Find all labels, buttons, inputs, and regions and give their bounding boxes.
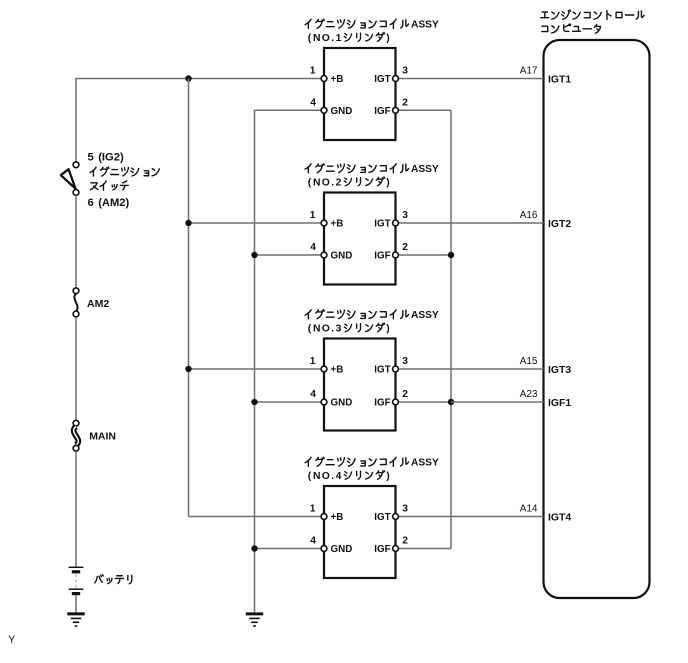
label coil U4 GND (331, 398, 353, 409)
coil U5 pin 3 IGT (393, 514, 399, 520)
svg-text:+B: +B (331, 74, 344, 85)
label coil U2 pin number 3 (402, 66, 408, 77)
ground coil GND bus (246, 614, 263, 626)
label coil U3 pin number 2 (402, 242, 408, 253)
svg-text:4: 4 (310, 98, 316, 109)
ignition switch SW1 terminal 6 (AM2) (73, 190, 79, 196)
junction GND bus at coil U4 (251, 399, 257, 405)
svg-text:IGT1: IGT1 (548, 74, 571, 85)
svg-text:(: ( (308, 33, 312, 44)
label coil U2 subtitle (NO.1シリンダ) (308, 33, 390, 44)
svg-text:IGT4: IGT4 (548, 512, 571, 523)
label coil U3 pin number 4 (310, 242, 316, 253)
svg-text:IGT: IGT (374, 512, 390, 523)
junction GND bus at coil U5 (251, 545, 257, 551)
label coil U5 pin number 1 (310, 504, 316, 515)
label ECU pin IGT1 (548, 74, 571, 85)
svg-text:GND: GND (331, 544, 353, 555)
label coil U3 title イグニツションコイルASSY (305, 164, 439, 175)
wire coil U5 IGF pin 2 to IGF bus (397, 548, 451, 550)
label coil U5 GND (331, 544, 353, 555)
coil U3 pin 2 IGF (393, 252, 399, 258)
svg-text:A14: A14 (520, 504, 538, 515)
label AM2 (87, 298, 109, 310)
svg-text:1: 1 (310, 504, 316, 515)
wire +B bus vertical (node B+) (188, 79, 190, 517)
label pin 5 (IG2) (88, 152, 124, 164)
wire coil U5 GND pin 4 to GND bus (255, 548, 323, 550)
label coil U4 IGT (374, 365, 390, 376)
wire fuse AM2 to fusible link MAIN (75, 317, 77, 421)
label coil U3 IGT (374, 219, 390, 230)
label coil U4 pin number 3 (402, 356, 408, 367)
label ECU pin IGT2 (548, 219, 571, 230)
label coil U3 IGF (374, 251, 390, 262)
svg-text:1: 1 (310, 356, 316, 367)
fuse AM2 terminal top (73, 288, 79, 294)
junction GND bus at coil U3 (251, 252, 257, 258)
fuse AM2 terminal bottom (73, 311, 79, 317)
wire coil U2 IGT pin 3 to ECU (397, 78, 544, 80)
label coil U5 IGT (374, 512, 390, 523)
label coil U3 pin number 3 (402, 210, 408, 221)
svg-text:4: 4 (336, 471, 342, 482)
coil U3 pin 1 +B (321, 220, 327, 226)
label coil U4 +B (331, 365, 344, 376)
label ECU pin IGF1 (548, 398, 571, 409)
svg-text:ASSY: ASSY (411, 310, 439, 321)
junction IGF bus at coil U4 (448, 399, 454, 405)
wire coil U4 IGT pin 3 to ECU (397, 368, 544, 370)
label coil U5 +B (331, 512, 344, 523)
ECU U1 label エンジンコントロール (541, 10, 644, 19)
label coil U2 IGT (374, 74, 390, 85)
wire coil U3 GND pin 4 to GND bus (255, 254, 323, 256)
svg-text:IGT: IGT (374, 365, 390, 376)
label coil U4 title イグニツションコイルASSY (305, 310, 439, 321)
label coil U2 pin number 4 (310, 98, 316, 109)
svg-text:2: 2 (402, 98, 408, 109)
label ECU cavity A17 (520, 66, 538, 77)
svg-text:3: 3 (402, 504, 408, 515)
coil U3 pin 4 GND (321, 252, 327, 258)
ignition switch SW1 イグニツションスイッチ terminal 5 (IG2) (73, 162, 79, 168)
svg-text:N: N (313, 33, 321, 44)
svg-text:2: 2 (402, 389, 408, 400)
label coil U3 subtitle (NO.2シリンダ) (308, 177, 390, 188)
svg-text:1: 1 (336, 33, 342, 44)
ignition switch SW1 lever (61, 169, 76, 188)
label coil U5 pin number 2 (402, 536, 408, 547)
svg-text:ASSY: ASSY (411, 164, 439, 175)
junction +B bus at coil U4 (185, 366, 191, 372)
svg-text:MAIN: MAIN (89, 431, 116, 443)
label イグニツション (ignition) (90, 167, 159, 176)
label coil U4 IGF (374, 398, 390, 409)
junction IGF bus at coil U3 (448, 252, 454, 258)
svg-text:IGT: IGT (374, 219, 390, 230)
svg-text:3: 3 (402, 210, 408, 221)
label ECU cavity A23 (520, 389, 538, 400)
label coil U5 IGF (374, 544, 390, 555)
ignition coil U5 イグニツションコイルASSY NO.4 box (324, 486, 396, 578)
label coil U3 GND (331, 251, 353, 262)
label ECU cavity A14 (520, 504, 538, 515)
wire +B bus to coil U3 pin 1 (189, 222, 323, 224)
wire coil U5 IGT pin 3 to ECU (397, 516, 544, 518)
coil U5 pin 1 +B (321, 514, 327, 520)
svg-text:N: N (313, 471, 321, 482)
wire battery to ground (75, 595, 77, 613)
fusible link MAIN terminal top (73, 420, 79, 426)
svg-text:GND: GND (331, 106, 353, 117)
coil U3 pin 3 IGT (393, 220, 399, 226)
svg-text:1: 1 (310, 66, 316, 77)
coil U2 pin 4 GND (321, 107, 327, 113)
svg-text:5: 5 (88, 152, 94, 164)
fuse AM2 element (74, 294, 77, 311)
svg-text:IGT3: IGT3 (548, 365, 571, 376)
svg-text:AM2: AM2 (87, 298, 109, 310)
junction +B bus at coil U3 (185, 220, 191, 226)
svg-text:O: O (322, 323, 330, 334)
svg-text:+B: +B (331, 219, 344, 230)
svg-text:.: . (331, 471, 334, 482)
svg-text:2: 2 (336, 177, 342, 188)
label coil U2 pin number 1 (310, 66, 316, 77)
svg-text:GND: GND (331, 251, 353, 262)
svg-text:IGF: IGF (374, 106, 390, 117)
label ECU pin IGT3 (548, 365, 571, 376)
coil U2 pin 3 IGT (393, 76, 399, 82)
wire IGF bus to ECU IGF1 (A23) (451, 401, 544, 403)
label coil U2 GND (331, 106, 353, 117)
label coil U4 pin number 2 (402, 389, 408, 400)
svg-text:.: . (331, 33, 334, 44)
label バッテリ (battery) (95, 575, 132, 584)
svg-text:): ) (386, 177, 389, 188)
fusible link MAIN terminal bottom (73, 445, 79, 451)
svg-text:O: O (322, 33, 330, 44)
ignition coil U4 イグニツションコイルASSY NO.3 box (324, 339, 396, 431)
coil U4 pin 3 IGT (393, 366, 399, 372)
label coil U5 title イグニツションコイルASSY (305, 457, 439, 468)
svg-text:ASSY: ASSY (411, 20, 439, 31)
svg-text:(: ( (308, 323, 312, 334)
svg-text:3: 3 (402, 356, 408, 367)
ECU U1 エンジンコントロールコンピュータ body (544, 40, 650, 598)
svg-text:4: 4 (310, 242, 316, 253)
wire coil U3 IGT pin 3 to ECU (397, 222, 544, 224)
svg-text:.: . (331, 177, 334, 188)
label coil U2 pin number 2 (402, 98, 408, 109)
label coil U4 pin number 4 (310, 389, 316, 400)
wire coil U3 IGF pin 2 to IGF bus (397, 254, 451, 256)
svg-text:IGT: IGT (374, 74, 390, 85)
svg-text:A23: A23 (520, 389, 538, 400)
label coil U4 subtitle (NO.3シリンダ) (308, 323, 390, 334)
wire fusible link MAIN to battery (75, 451, 77, 566)
coil U5 pin 2 IGF (393, 546, 399, 552)
label coil U3 pin number 1 (310, 210, 316, 221)
label coil U5 pin number 4 (310, 536, 316, 547)
svg-text:IGT2: IGT2 (548, 219, 571, 230)
label MAIN (89, 431, 116, 443)
svg-text:+B: +B (331, 365, 344, 376)
svg-text:A17: A17 (520, 66, 538, 77)
label coil U5 subtitle (NO.4シリンダ) (308, 471, 390, 482)
ground battery side (67, 614, 84, 626)
svg-text:(: ( (308, 471, 312, 482)
coil U4 pin 2 IGF (393, 399, 399, 405)
svg-text:O: O (322, 177, 330, 188)
label ECU pin IGT4 (548, 512, 571, 523)
label coil U2 +B (331, 74, 344, 85)
wire coil U4 IGF pin 2 to IGF bus (397, 401, 451, 403)
junction +B bus top (185, 75, 191, 81)
svg-text:IGF: IGF (374, 544, 390, 555)
label coil U2 IGF (374, 106, 390, 117)
label ECU cavity A15 (520, 356, 538, 367)
svg-text:N: N (313, 177, 321, 188)
svg-text:O: O (322, 471, 330, 482)
wire +B bus to coil U5 pin 1 (189, 516, 323, 518)
wire IGF bus vertical (node IGF) (450, 110, 452, 548)
wire GND bus vertical (node E1) (254, 110, 256, 612)
svg-text:GND: GND (331, 398, 353, 409)
svg-text:4: 4 (310, 389, 316, 400)
battery BAT バッテリ (69, 567, 84, 593)
ECU U1 label コンピユータ (542, 24, 601, 33)
svg-text:IGF: IGF (374, 398, 390, 409)
svg-text:ASSY: ASSY (411, 458, 439, 469)
wire coil U4 GND pin 4 to GND bus (255, 401, 323, 403)
svg-text:A16: A16 (520, 210, 538, 221)
wire switch to fuse AM2 (75, 195, 77, 288)
svg-text:): ) (386, 33, 389, 44)
coil U5 pin 4 GND (321, 546, 327, 552)
label pin 6 (AM2) (88, 197, 130, 209)
svg-text:.: . (331, 323, 334, 334)
ignition coil U2 イグニツションコイルASSY NO.1 box (324, 48, 396, 140)
svg-text:): ) (386, 323, 389, 334)
svg-text:+B: +B (331, 512, 344, 523)
svg-text:2: 2 (402, 536, 408, 547)
label coil U2 title イグニツションコイルASSY (305, 19, 439, 30)
fusible link MAIN element (74, 427, 79, 446)
coil U4 pin 1 +B (321, 366, 327, 372)
svg-text:4: 4 (310, 536, 316, 547)
coil U2 pin 1 +B (321, 76, 327, 82)
wire left branch vertical (ignition switch feed) (75, 78, 77, 162)
coil U4 pin 4 GND (321, 399, 327, 405)
wire coil U2 GND pin 4 to GND bus (255, 109, 323, 111)
svg-text:): ) (386, 471, 389, 482)
label page code Y (8, 634, 16, 646)
svg-text:Y: Y (8, 634, 16, 646)
coil U2 pin 2 IGF (393, 107, 399, 113)
svg-text:1: 1 (310, 210, 316, 221)
ignition coil U3 イグニツションコイルASSY NO.2 box (324, 193, 396, 285)
svg-text:3: 3 (402, 66, 408, 77)
svg-text:2: 2 (402, 242, 408, 253)
svg-text:A15: A15 (520, 356, 538, 367)
label coil U5 pin number 3 (402, 504, 408, 515)
svg-text:(AM2): (AM2) (98, 197, 129, 209)
label ECU cavity A16 (520, 210, 538, 221)
svg-text:N: N (313, 323, 321, 334)
svg-text:3: 3 (336, 323, 342, 334)
svg-text:6: 6 (88, 197, 94, 209)
svg-text:(IG2): (IG2) (98, 152, 124, 164)
wire +B bus to coil U4 pin 1 (189, 368, 323, 370)
svg-text:IGF: IGF (374, 251, 390, 262)
svg-text:IGF1: IGF1 (548, 398, 571, 409)
wire battery branch to +B bus and coil1 +B (node +B) (76, 78, 323, 80)
wire coil U2 IGF pin 2 to IGF bus (397, 109, 451, 111)
label coil U4 pin number 1 (310, 356, 316, 367)
label coil U3 +B (331, 219, 344, 230)
svg-text:(: ( (308, 177, 312, 188)
label スイッチ (switch) (90, 181, 128, 190)
